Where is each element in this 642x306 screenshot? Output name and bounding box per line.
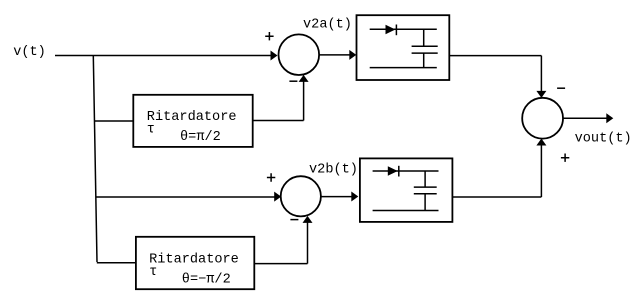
svg-text:τ: τ	[147, 123, 155, 138]
svg-text:vout(t): vout(t)	[575, 132, 632, 147]
svg-text:θ=π/2: θ=π/2	[180, 130, 221, 145]
svg-text:θ=−π/2: θ=−π/2	[182, 272, 231, 287]
svg-text:Ritardatore: Ritardatore	[149, 252, 239, 267]
svg-text:Ritardatore: Ritardatore	[147, 110, 237, 125]
svg-text:v(t): v(t)	[13, 45, 46, 60]
svg-text:v2b(t): v2b(t)	[309, 162, 358, 177]
svg-text:τ: τ	[149, 265, 157, 280]
svg-text:v2a(t): v2a(t)	[303, 17, 352, 32]
